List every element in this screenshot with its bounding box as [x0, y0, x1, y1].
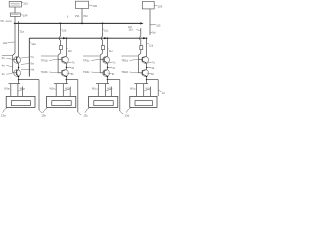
- label 9c: [108, 67, 113, 69]
- display element box 13a: [6, 96, 35, 107]
- svg-text:11a: 11a: [20, 29, 25, 33]
- bus2 arrowhead at col d: [143, 37, 146, 39]
- svg-text:W1d: W1d: [130, 88, 136, 91]
- wire c feed3: [110, 87, 112, 97]
- wire base rail a: [13, 53, 15, 55]
- wire base top lead d: [121, 55, 137, 57]
- junction c mid: [107, 67, 108, 68]
- svg-text:13c: 13c: [83, 113, 88, 117]
- wire col d V2: [146, 38, 148, 56]
- svg-text:11d: 11d: [149, 43, 154, 47]
- svg-text:VS2: VS2: [83, 15, 88, 18]
- label 11b: [66, 47, 67, 50]
- label 8d lead: [150, 31, 152, 34]
- wire b feed2: [62, 84, 64, 97]
- wire col c output (right drop): [108, 79, 120, 81]
- bus2 arrowhead at col c: [104, 37, 107, 39]
- wire col a base top lead: [2, 55, 13, 57]
- junction bus2/col-b: [66, 37, 68, 39]
- wire col d bottom bar: [134, 83, 148, 85]
- wire c feed1: [97, 84, 99, 97]
- wire hop: col d V1 over bus2: [140, 36, 141, 40]
- svg-text:10a: 10a: [3, 41, 8, 45]
- junction d mid: [146, 67, 147, 68]
- controller box 101: [9, 1, 21, 7]
- wire bus2 left drop (col a feed): [28, 38, 30, 76]
- transistor TR1d: [139, 58, 143, 60]
- wire a feed2: [17, 84, 19, 97]
- node col c V1 wire: [102, 23, 104, 36]
- label 105 lead: [150, 24, 156, 26]
- svg-text:10b: 10b: [62, 28, 67, 32]
- transistor TR2d: [139, 72, 143, 74]
- label 103: [154, 4, 157, 7]
- label 13a: [3, 107, 8, 112]
- label 9d: [147, 67, 152, 69]
- inner electrode box d: [135, 101, 152, 106]
- display element box 13b: [47, 96, 76, 107]
- label 13c: [85, 107, 90, 112]
- transistor TR1b: [58, 58, 62, 60]
- wire col a bottom bar: [9, 83, 21, 85]
- svg-text:W1b: W1b: [50, 88, 56, 91]
- label 101: [21, 1, 23, 4]
- label 11c: [108, 47, 109, 50]
- label 10c: [103, 28, 104, 31]
- resistor Rc: [102, 46, 105, 50]
- junction bus1/col-b: [60, 23, 62, 25]
- bus2 arrowhead at col b: [63, 37, 66, 39]
- resistor Rd: [140, 46, 143, 50]
- wire hop: col c V1 over bus2: [101, 36, 102, 40]
- svg-text:VS1: VS1: [75, 15, 80, 18]
- junction d emitter: [146, 76, 147, 77]
- controller box 103: [142, 2, 154, 9]
- wire d feed1: [136, 84, 138, 97]
- label 8d2: [147, 72, 151, 75]
- display element box 13c: [89, 96, 118, 107]
- wire a feed1: [10, 84, 12, 97]
- wire a feed3: [21, 87, 23, 97]
- svg-text:11c: 11c: [109, 49, 114, 53]
- svg-text:TR2d: TR2d: [121, 70, 128, 74]
- svg-text:TR2b: TR2b: [41, 70, 48, 74]
- junction bus2/col-d: [146, 37, 148, 39]
- bus wire VD (horizontal bus 1): [14, 22, 140, 24]
- wire col a output (right drop): [19, 79, 39, 81]
- label 7d: [147, 62, 152, 63]
- box 104: [10, 13, 20, 16]
- node col b V1 wire: [59, 23, 61, 36]
- label 104: [20, 14, 22, 17]
- label 11d: [147, 42, 149, 45]
- svg-text:TR1b: TR1b: [41, 58, 48, 62]
- controller box 102: [75, 1, 88, 8]
- wire b feed1: [55, 84, 57, 97]
- label 8b: [66, 72, 70, 75]
- wire base top lead b: [41, 55, 58, 57]
- wire base rail d: [139, 53, 141, 55]
- transistor TR1a: [13, 58, 17, 60]
- transistor TR2b: [58, 72, 62, 74]
- wire col a V2: [18, 23, 20, 56]
- junction a emitter: [18, 76, 19, 77]
- junction c emitter: [107, 76, 108, 77]
- svg-text:TR2c: TR2c: [83, 70, 90, 74]
- transistor TR2a: [13, 72, 17, 74]
- wire c feed2: [104, 84, 106, 97]
- transistor TR1c: [100, 58, 104, 60]
- junction bus1/col-c: [102, 23, 104, 25]
- label 9b: [66, 67, 71, 69]
- svg-text:105: 105: [156, 25, 161, 28]
- wire col b bottom bar: [54, 83, 68, 85]
- svg-text:102: 102: [92, 4, 97, 8]
- svg-text:TR1d: TR1d: [121, 58, 128, 62]
- wire col a V2 top stub: [18, 21, 20, 23]
- svg-text:W1c: W1c: [92, 88, 98, 91]
- svg-text:101: 101: [23, 2, 28, 6]
- wire d feed3: [149, 87, 151, 97]
- wire col b V2: [65, 38, 67, 56]
- wire col c V2: [107, 38, 109, 56]
- label 7b: [66, 62, 71, 63]
- wire base rail c: [100, 53, 102, 55]
- svg-text:W1a: W1a: [4, 88, 10, 91]
- label 102: [89, 4, 93, 7]
- node col d V1 wire: [140, 28, 142, 36]
- svg-text:13a: 13a: [1, 113, 6, 117]
- svg-text:10c: 10c: [104, 28, 109, 32]
- inner electrode box c: [94, 101, 113, 106]
- resistor Rb: [59, 46, 62, 50]
- junction bus1/col-a V1: [14, 23, 15, 24]
- svg-text:TR1c: TR1c: [83, 58, 90, 62]
- junction b emitter: [66, 76, 67, 77]
- bus1 arrowhead: [140, 22, 143, 24]
- label 13d: [126, 107, 131, 112]
- node col a V1 wire: [14, 16, 16, 53]
- wire b feed3: [69, 87, 71, 97]
- transistor TR2c: [100, 72, 104, 74]
- wire col d output (right drop): [147, 79, 159, 81]
- wire col b output (right drop): [66, 79, 77, 81]
- junction b mid: [66, 67, 67, 68]
- wire base rail b: [58, 53, 60, 55]
- inner electrode box b: [52, 101, 71, 106]
- wire hop: col b V1 over bus2: [59, 36, 60, 40]
- svg-text:10d: 10d: [128, 29, 133, 32]
- label 10b: [60, 28, 61, 31]
- inner electrode box a: [11, 101, 30, 106]
- wire base top lead c: [83, 55, 100, 57]
- label 11a: [19, 29, 20, 32]
- svg-text:13d: 13d: [124, 113, 129, 117]
- label 8c: [108, 72, 112, 75]
- junction bus1/box102: [81, 23, 83, 25]
- svg-text:103: 103: [158, 5, 163, 9]
- label 7c: [108, 62, 113, 63]
- bus wire 2 (horizontal bus 2): [29, 37, 145, 39]
- display element box 13d: [130, 96, 157, 107]
- junction bus2/col-c: [107, 37, 109, 39]
- label 12a: [29, 41, 31, 44]
- junction bus1/col-a V2: [18, 23, 19, 24]
- junction a mid: [18, 67, 19, 68]
- wire box102 to bus VS: [81, 9, 83, 24]
- wire box103 down: [149, 9, 151, 35]
- label 13b: [43, 107, 48, 112]
- svg-text:13b: 13b: [41, 113, 46, 117]
- svg-text:104: 104: [23, 14, 28, 18]
- wire col c bottom bar: [96, 83, 109, 85]
- wire box101 to box104: [14, 7, 16, 13]
- wire d feed2: [143, 84, 145, 97]
- svg-text:VD: VD: [0, 20, 4, 23]
- svg-text:11b: 11b: [68, 49, 73, 53]
- svg-text:12a: 12a: [31, 42, 36, 46]
